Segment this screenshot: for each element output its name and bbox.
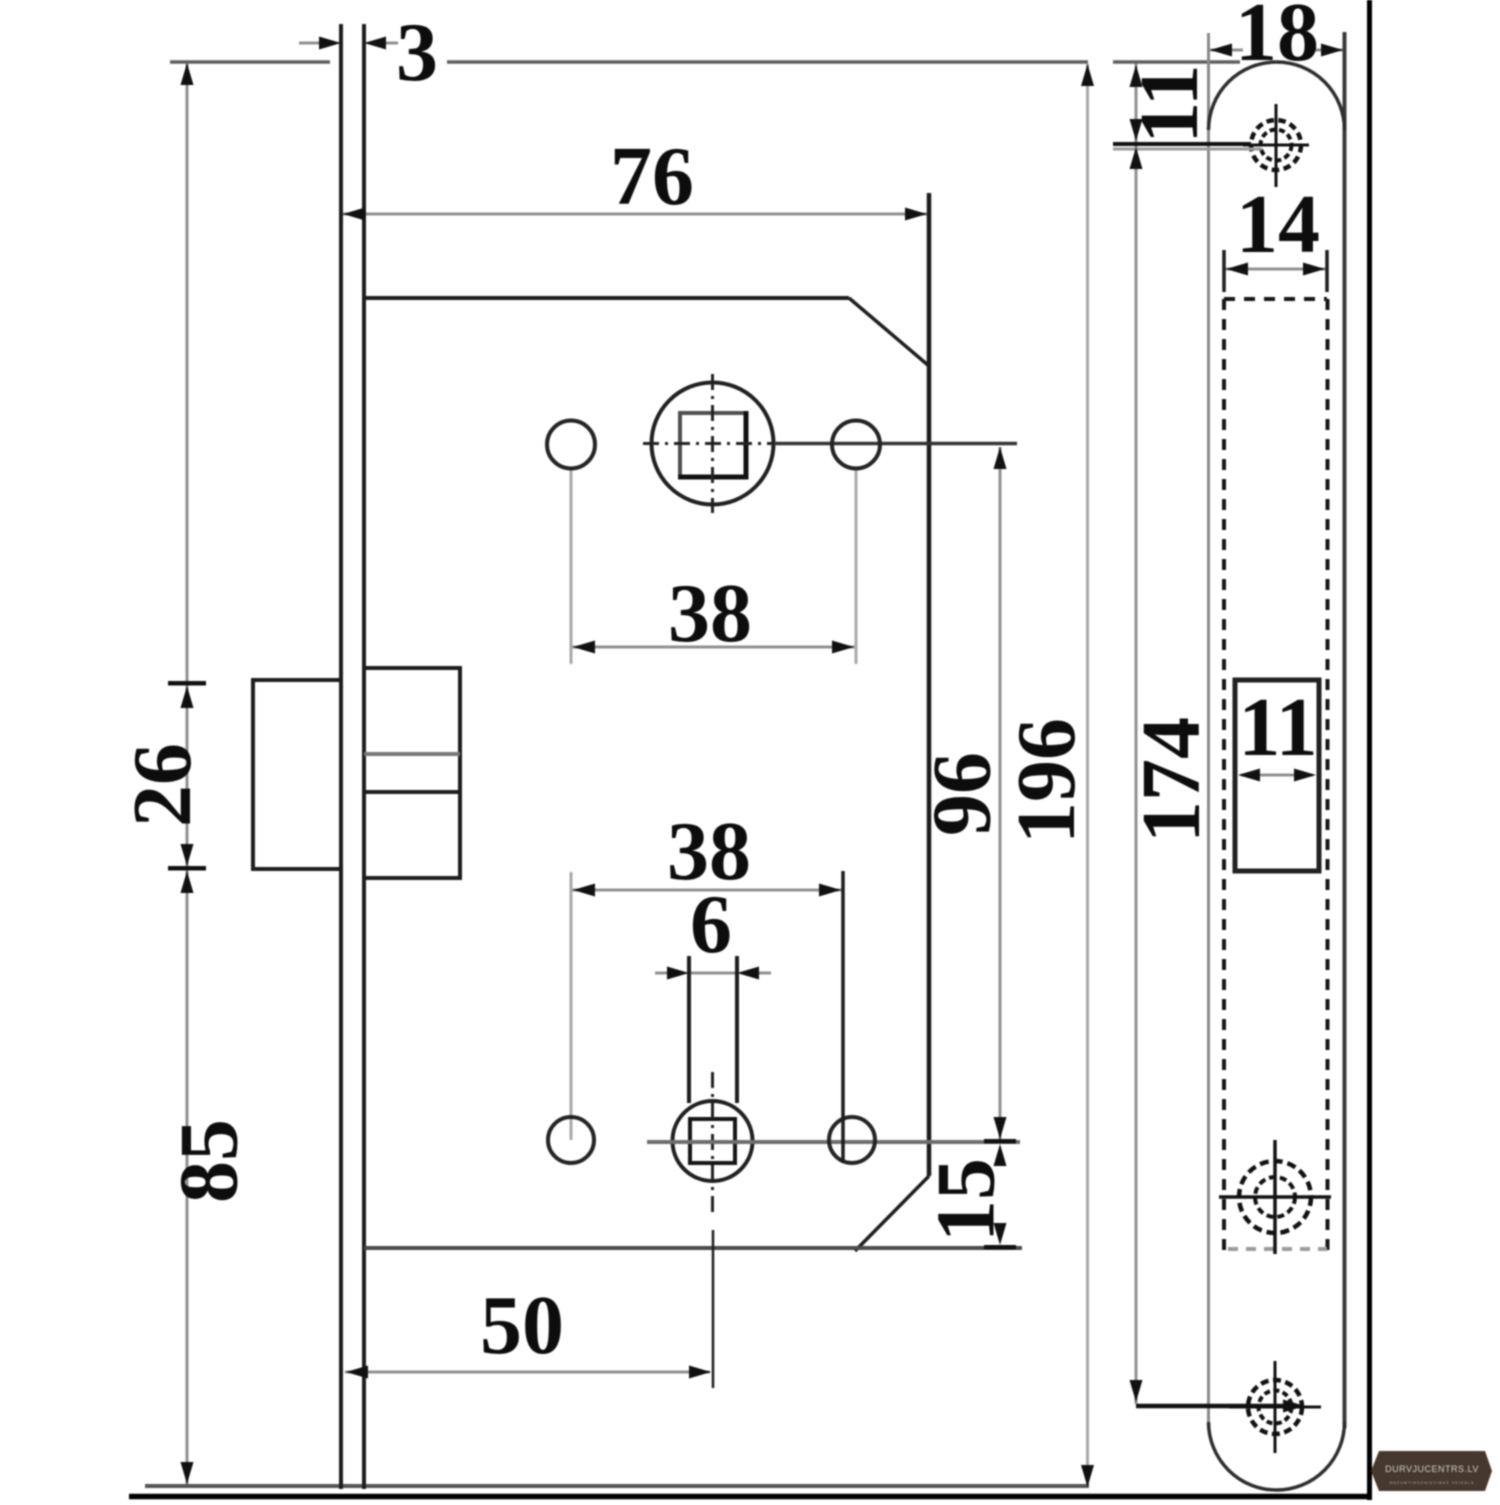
svg-text:196: 196 bbox=[1000, 718, 1093, 844]
svg-text:76: 76 bbox=[610, 130, 694, 223]
svg-text:MAZUMTIRDZNIECIBAS VEIKALS: MAZUMTIRDZNIECIBAS VEIKALS bbox=[1389, 1481, 1474, 1485]
svg-text:14: 14 bbox=[1236, 178, 1320, 271]
svg-text:85: 85 bbox=[163, 1119, 256, 1203]
svg-text:96: 96 bbox=[916, 752, 1009, 836]
svg-text:6: 6 bbox=[690, 878, 732, 971]
svg-text:50: 50 bbox=[480, 1279, 564, 1372]
svg-text:15: 15 bbox=[920, 1158, 1013, 1242]
svg-text:DURVJUCENTRS.LV: DURVJUCENTRS.LV bbox=[1385, 1464, 1479, 1474]
svg-text:174: 174 bbox=[1125, 717, 1218, 843]
svg-text:38: 38 bbox=[668, 567, 752, 660]
svg-text:3: 3 bbox=[396, 6, 438, 99]
svg-text:11: 11 bbox=[1238, 681, 1317, 774]
svg-text:18: 18 bbox=[1235, 0, 1319, 79]
svg-text:26: 26 bbox=[116, 743, 209, 827]
svg-text:11: 11 bbox=[1123, 64, 1216, 143]
